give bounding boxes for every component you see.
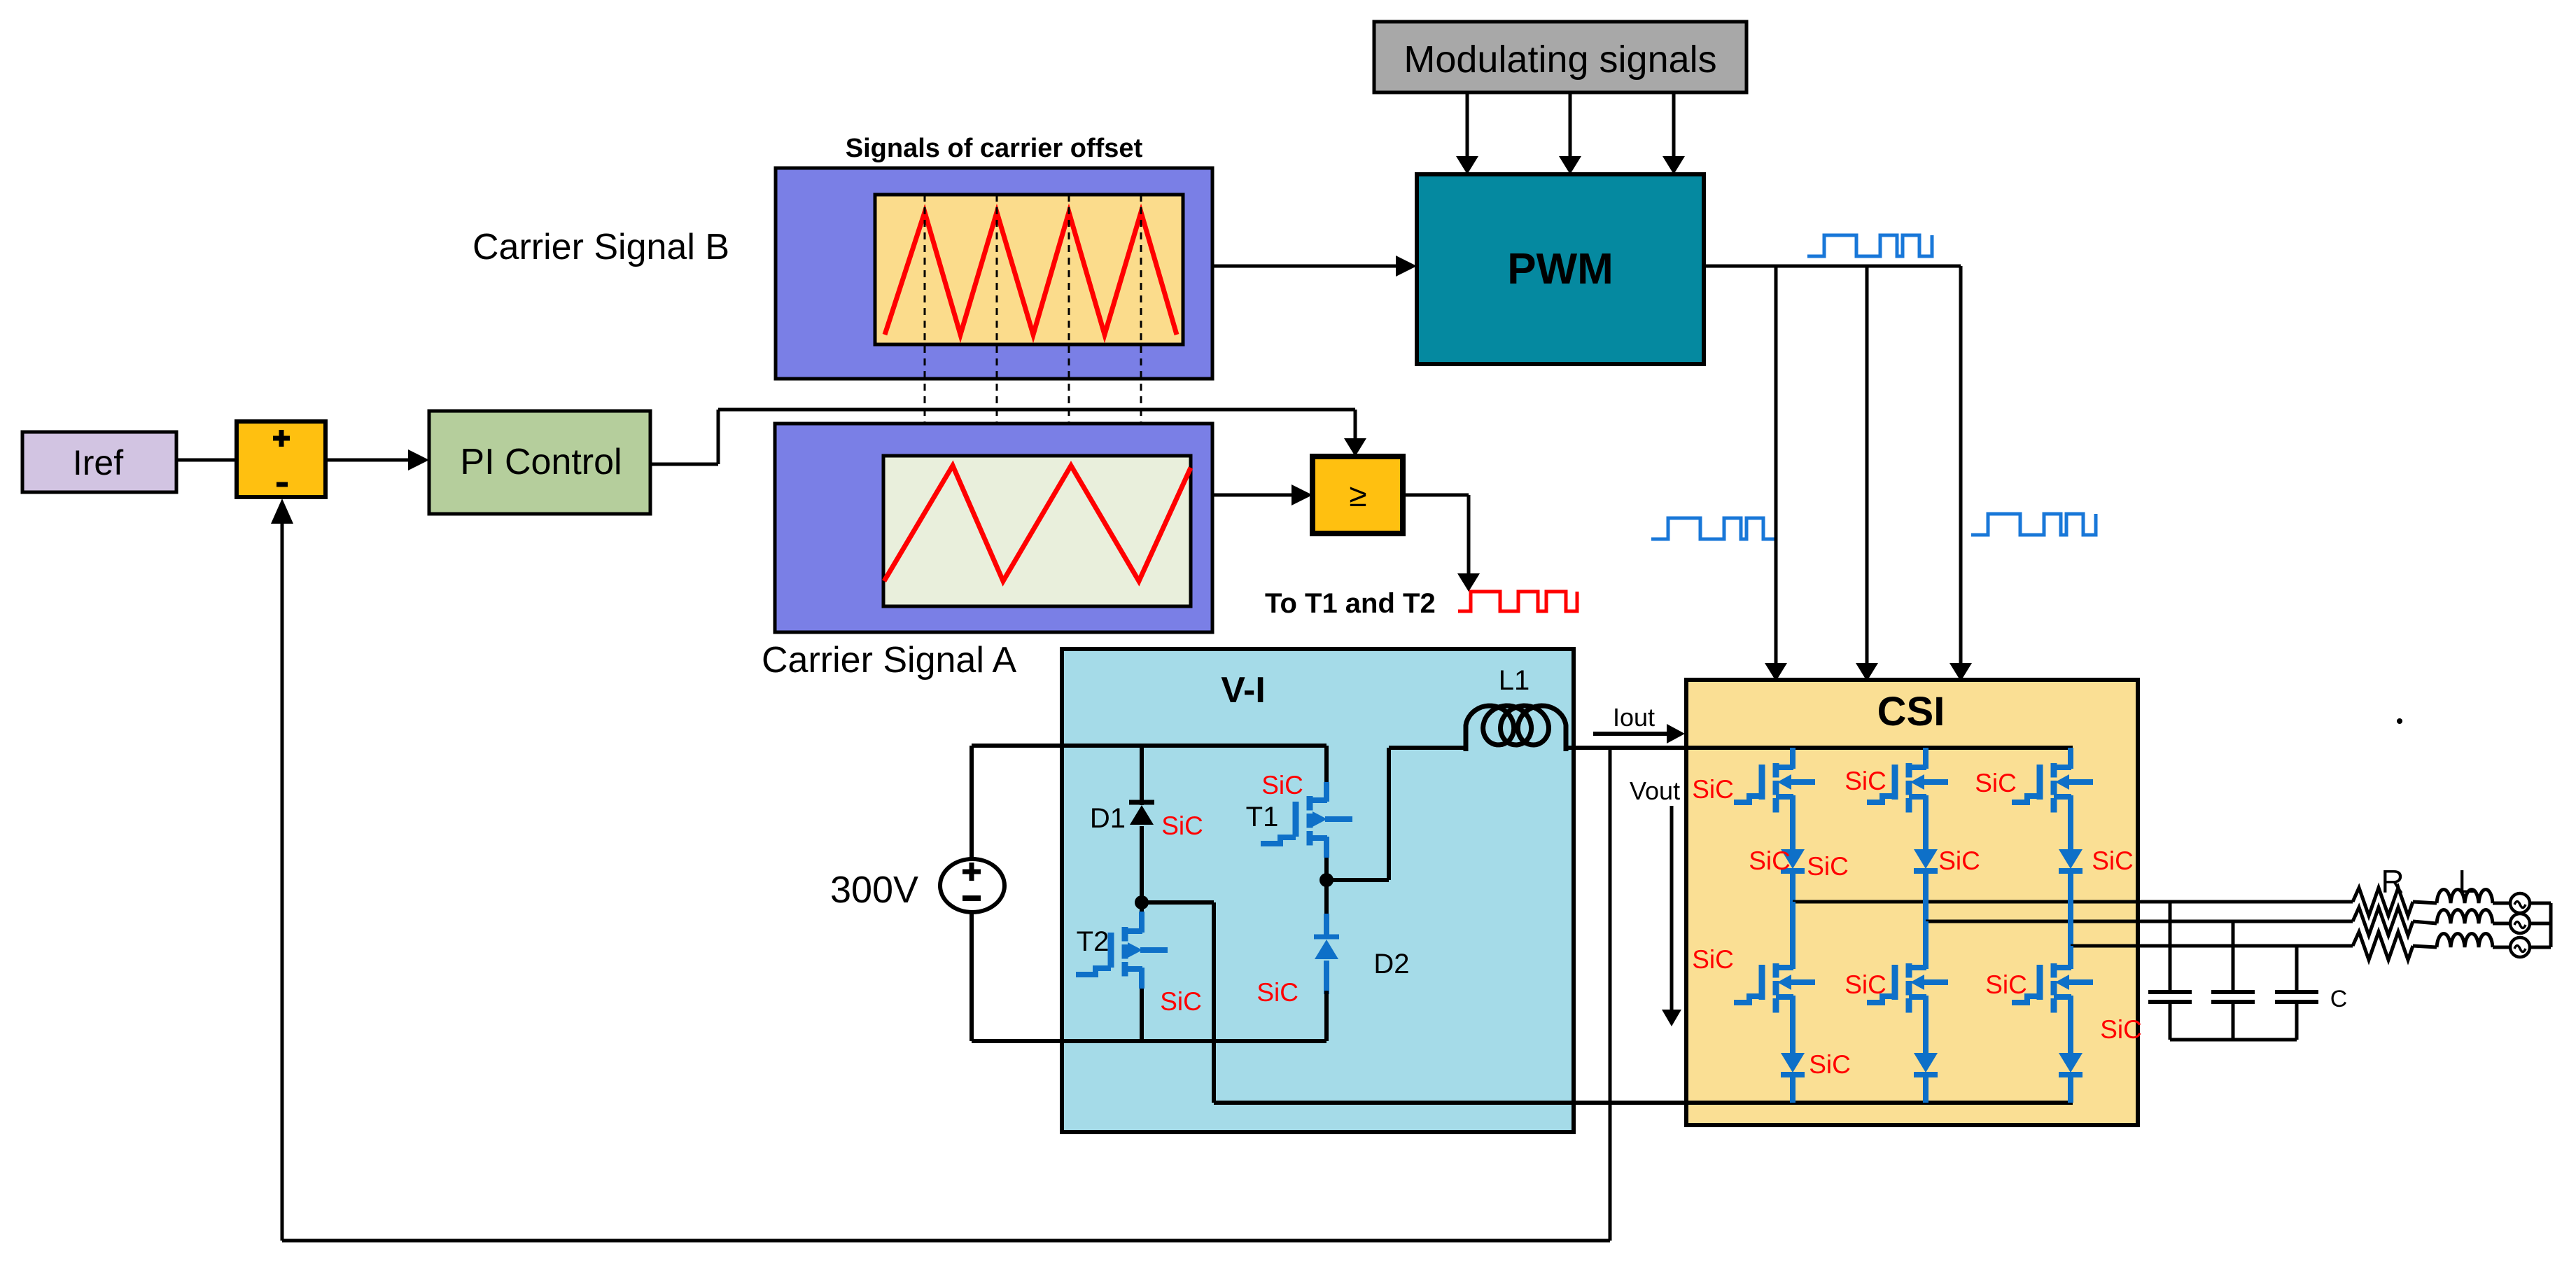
svg-text:SiC: SiC [1161, 811, 1203, 840]
svg-text:Iout: Iout [1613, 703, 1655, 732]
wire CSI leg1 to phase [1790, 873, 1795, 902]
wire T1 chain upper [1324, 746, 1329, 784]
carrier A triangle wave [884, 466, 1191, 581]
inductor L1 [1466, 706, 1566, 751]
wire load neutral bus [2549, 903, 2553, 947]
wire CSI leg3 lower mid [2068, 997, 2073, 1054]
svg-text:SiC: SiC [1692, 945, 1734, 974]
AC source phase 3 [2510, 937, 2530, 957]
svg-text:T2: T2 [1077, 926, 1109, 957]
svg-text:SiC: SiC [1985, 970, 2027, 999]
block carrier A outer [775, 424, 1212, 632]
wire D1 to node [1140, 826, 1144, 917]
svg-text:C: C [2330, 986, 2348, 1012]
resistor R phase 1 [2353, 888, 2413, 916]
wire CSI leg1 mid [1790, 797, 1795, 851]
wire PWM to CSI 2 [1865, 266, 1869, 665]
svg-text:SiC: SiC [1844, 970, 1886, 999]
svg-text:PI Control: PI Control [460, 442, 622, 482]
wire sum to PI [325, 459, 412, 462]
wire capacitor bus [2170, 1038, 2297, 1042]
wire V-I bottom rail [972, 1039, 1326, 1043]
transistor CSI bottom M2 [1906, 963, 1912, 978]
wire carrier B to PWM [1212, 265, 1400, 268]
wire phase line 1 [1793, 900, 2353, 904]
wire CSI leg2 to bottom bus [1923, 1077, 1928, 1103]
resistor R phase 3 [2353, 932, 2413, 960]
blue waveform top [1807, 235, 1932, 256]
svg-text:≥: ≥ [1349, 477, 1366, 513]
inductor L phase 1 [2437, 890, 2493, 904]
dashed sync line 3 [1068, 195, 1070, 606]
svg-text:SiC: SiC [1975, 769, 2017, 797]
wire D1 chain upper [1140, 746, 1144, 805]
wire Iref to sum [176, 459, 237, 462]
svg-text:SiC: SiC [1261, 771, 1303, 800]
wire CSI leg2 to phase [1923, 873, 1928, 921]
svg-text:SiC: SiC [1256, 978, 1298, 1007]
transistor CSI top M2 [1923, 748, 1928, 769]
svg-text:SiC: SiC [2092, 846, 2134, 875]
wire cap lead top 3 [2295, 946, 2299, 992]
block PI Control [429, 411, 650, 514]
wire modulating to PWM 1 [1466, 92, 1469, 158]
svg-text:To T1 and T2: To T1 and T2 [1265, 588, 1436, 619]
wire phase line 2 [1926, 920, 2353, 923]
wire return bus [1214, 1101, 2073, 1105]
block Modulating signals [1374, 22, 1746, 92]
wire source to bus phase 2 [2530, 922, 2551, 926]
wire 300V bottom lead [969, 912, 974, 1041]
inductor L phase 2 [2437, 910, 2493, 924]
block carrier A scope [883, 456, 1191, 606]
wire PWM to CSI 1 [1774, 266, 1778, 665]
diode CSI top D2 [1914, 849, 1938, 869]
arrow Iout [1593, 732, 1669, 736]
svg-text:Carrier Signal A: Carrier Signal A [762, 640, 1016, 681]
wire CSI leg3 lower [2068, 946, 2073, 969]
wire cap lead top 1 [2169, 902, 2172, 992]
capacitor C3 [2275, 990, 2318, 994]
svg-text:SiC: SiC [1749, 846, 1791, 875]
wire source to bus phase 3 [2530, 946, 2551, 949]
svg-text:Modulating signals: Modulating signals [1403, 39, 1716, 81]
node A junction [1135, 895, 1149, 909]
AC source phase 2 [2510, 914, 2530, 933]
summing junction [237, 421, 325, 497]
block PWM [1417, 174, 1704, 364]
wire CSI leg3 mid [2068, 797, 2073, 851]
wire CSI leg2 lower mid [1923, 997, 1928, 1054]
block CSI [1686, 680, 2138, 1125]
wire CSI leg3 to phase [2068, 873, 2073, 946]
blue waveform left [1651, 518, 1776, 539]
source 300V [940, 859, 1004, 912]
transistor CSI top M1 [1790, 748, 1795, 769]
resistor R phase 2 [2353, 907, 2413, 935]
wire R to L phase 3 [2413, 946, 2437, 947]
diode CSI top D1 [1781, 849, 1805, 869]
dashed sync line 2 [996, 195, 998, 606]
svg-text:Iref: Iref [73, 443, 123, 482]
node B junction [1319, 873, 1333, 887]
wire CSI leg2 mid [1923, 797, 1928, 851]
wire CSI leg2 lower [1923, 921, 1928, 969]
diode CSI bottom D1 [1781, 1053, 1805, 1073]
wire comparator output [1403, 494, 1469, 497]
inductor L phase 3 [2437, 934, 2493, 948]
block carrier B outer [776, 168, 1212, 379]
wire L to source phase 1 [2493, 902, 2510, 905]
wire PWM output [1704, 265, 1961, 268]
wire D2 to bottom rail [1324, 991, 1329, 1041]
transistor CSI bottom M1 [1773, 963, 1779, 978]
diode D1 [1129, 800, 1154, 805]
arrow Vout [1670, 806, 1674, 1011]
wire modulating to PWM 2 [1569, 92, 1572, 158]
wire carrier A to comparator [1212, 494, 1296, 497]
wire CSI leg3 to bottom bus [2068, 1077, 2073, 1103]
svg-text:SiC: SiC [1844, 767, 1886, 795]
wire L to source phase 2 [2493, 922, 2510, 926]
wire CSI top bus [1686, 746, 2073, 750]
wire L to source phase 3 [2493, 946, 2510, 949]
carrier B triangle wave [885, 212, 1177, 335]
capacitor C1 [2148, 990, 2192, 994]
svg-text:SiC: SiC [1807, 852, 1849, 881]
transistor T1 [1307, 796, 1313, 811]
svg-text:Carrier Signal B: Carrier Signal B [472, 227, 729, 267]
diode CSI bottom D2 [1914, 1053, 1938, 1073]
block carrier B scope [875, 195, 1183, 344]
block V-I [1062, 649, 1574, 1132]
svg-text:SiC: SiC [2100, 1015, 2142, 1044]
blue waveform right [1971, 514, 2096, 535]
wire T1 to node B [1324, 858, 1329, 882]
transistor CSI bottom M3 [2051, 963, 2057, 978]
wire PWM to CSI 3 [1959, 266, 1963, 665]
wire cap lead bottom 2 [2232, 1002, 2235, 1040]
svg-text:PWM: PWM [1507, 245, 1613, 293]
wire modulating to PWM 3 [1672, 92, 1676, 158]
wire into comparator top [1354, 410, 1357, 441]
wire node A to return bus [1142, 900, 1214, 905]
wire V-I top rail [972, 744, 1326, 748]
wire CSI leg1 lower mid [1790, 997, 1795, 1054]
wire cap lead bottom 1 [2169, 1002, 2172, 1040]
wire cap lead top 2 [2232, 921, 2235, 992]
transistor T2 [1139, 912, 1144, 931]
wire node B to L1 riser [1326, 878, 1389, 882]
svg-text:D2: D2 [1373, 949, 1409, 979]
red gate waveform [1458, 592, 1577, 611]
transistor CSI top M3 [2068, 748, 2073, 769]
svg-text:300V: 300V [830, 869, 918, 911]
svg-text:V-I: V-I [1221, 670, 1266, 711]
svg-text:L1: L1 [1499, 665, 1530, 696]
svg-text:SiC: SiC [1692, 775, 1734, 804]
stray mark [2397, 718, 2402, 724]
svg-text:T1: T1 [1246, 802, 1279, 832]
svg-text:SiC: SiC [1809, 1050, 1851, 1079]
svg-text:Signals of carrier offset: Signals of carrier offset [846, 134, 1143, 163]
wire cap lead bottom 3 [2295, 1002, 2299, 1040]
svg-text:SiC: SiC [1938, 846, 1980, 875]
wire phase line 3 [2071, 944, 2353, 948]
capacitor C2 [2211, 990, 2255, 994]
AC source phase 1 [2510, 893, 2530, 913]
wire feedback [1609, 749, 1612, 1241]
wire source to bus phase 1 [2530, 902, 2551, 905]
wire CSI leg1 lower [1790, 902, 1795, 969]
svg-text:Vout: Vout [1630, 776, 1680, 805]
wire node B to D2 [1324, 880, 1329, 938]
dashed sync line 1 [924, 195, 926, 606]
wire L1 to CSI [1566, 746, 1686, 750]
svg-text:CSI: CSI [1877, 689, 1945, 734]
diode CSI bottom D3 [2059, 1053, 2082, 1073]
wire CSI leg1 to bottom bus [1790, 1077, 1795, 1103]
diode D2 [1324, 914, 1329, 938]
wire PI to comparator [650, 463, 718, 466]
dashed sync line 4 [1140, 195, 1142, 606]
svg-text:SiC: SiC [1160, 987, 1202, 1016]
svg-text:D1: D1 [1090, 803, 1126, 834]
wire R to L phase 2 [2413, 921, 2437, 923]
wire 300V top lead [969, 746, 974, 860]
wire T2 to bottom rail [1140, 989, 1144, 1041]
block Iref [22, 432, 176, 492]
diode CSI top D3 [2059, 849, 2082, 869]
comparator GE block [1312, 456, 1403, 533]
wire R to L phase 1 [2413, 902, 2437, 903]
